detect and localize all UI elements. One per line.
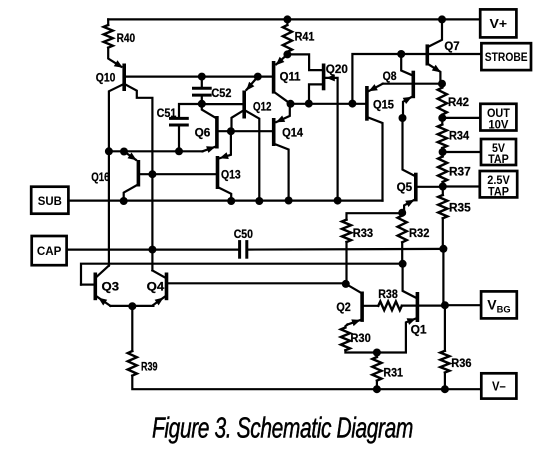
svg-text:C51: C51	[157, 106, 177, 120]
terminal box 5V TAP	[481, 139, 516, 165]
node rail-Q7	[438, 15, 446, 23]
node R32 bottom / Q1 collector / Q3 base line	[399, 260, 407, 268]
svg-text:Q8: Q8	[383, 69, 397, 83]
wire 5V lead	[443, 151, 481, 153]
wire emitter bus	[109, 150, 203, 152]
wire rail to R40	[107, 19, 109, 25]
node VBG junction	[441, 301, 449, 309]
wire R42 bottom	[441, 115, 443, 118]
resistor R41	[283, 25, 292, 52]
svg-text:TAP: TAP	[488, 184, 509, 198]
wire OUT lead	[442, 117, 479, 119]
svg-text:R42: R42	[448, 95, 469, 109]
svg-text:Q15: Q15	[373, 98, 394, 112]
resistor R36	[440, 351, 449, 373]
svg-text:Q16: Q16	[91, 170, 109, 184]
svg-text:Q4: Q4	[147, 280, 165, 294]
wire Q8/Q15/R42 base line	[383, 83, 442, 85]
svg-text:R33: R33	[353, 226, 374, 240]
wire SUB line	[68, 200, 382, 202]
emitter arrow Q12	[246, 82, 254, 91]
emitter arrow Q4	[155, 298, 164, 306]
transistor Q1 bar	[416, 292, 420, 322]
node SUB / Q20 emitter	[334, 197, 342, 205]
emitter arrow Q1	[407, 318, 416, 325]
emitter arrow Q10	[114, 60, 123, 68]
wire Q1 emitter	[377, 318, 418, 353]
wire Q15 collector to SUB	[367, 117, 383, 201]
emitter arrow Q6	[206, 146, 215, 153]
node Q5 emitter / R32 R33 top	[398, 209, 406, 217]
wire Q5 base	[418, 186, 443, 188]
wire Q16 collector to SUB	[124, 184, 139, 201]
wire Q11 collector	[274, 92, 291, 104]
transistor Q3 bar	[94, 273, 98, 301]
svg-text:Q3: Q3	[102, 280, 120, 294]
wire R39 top lead	[131, 306, 133, 351]
wire Q16 emitter	[124, 152, 136, 160]
resistor R30	[341, 328, 350, 351]
svg-text:10V: 10V	[488, 117, 509, 131]
svg-text:STROBE: STROBE	[485, 50, 528, 64]
wire R39 bottom to Vminus line	[132, 376, 482, 390]
terminal box VBG	[481, 291, 517, 318]
svg-text:Q1: Q1	[411, 323, 427, 337]
node R36 / Vminus line	[441, 385, 449, 393]
node Q8 emitter / Q5 collector / OUT	[399, 114, 407, 122]
svg-text:Q6: Q6	[195, 126, 211, 140]
wire C51 top lead	[179, 104, 202, 118]
node Q6 base / Q12 collector / Q13 emitter	[227, 127, 235, 135]
wire Q3 emitter	[97, 297, 110, 306]
node R41 / Q11 / Q20	[283, 50, 291, 58]
transistor Q2 bar	[360, 292, 364, 322]
svg-text:R34: R34	[449, 129, 469, 143]
node CAP line / Q4 collector	[148, 246, 156, 254]
resistor R37	[438, 157, 447, 183]
svg-text:CAP: CAP	[37, 244, 62, 258]
node Q16 base / Q10 right collector	[148, 170, 156, 178]
wire Q13 collector to SUB	[218, 187, 232, 201]
node bus / Q20 base	[305, 100, 313, 108]
terminal box V-	[481, 373, 516, 398]
svg-text:Q11: Q11	[280, 69, 301, 83]
svg-text:C52: C52	[211, 86, 231, 100]
transistor Q8 bar	[411, 71, 415, 99]
node R35 / CAP line	[439, 245, 447, 253]
wire R30 top lead	[345, 325, 347, 328]
wire Q12 right collector to SUB	[244, 110, 259, 201]
svg-text:R30: R30	[350, 331, 371, 345]
wire R33 bottom lead	[345, 242, 347, 284]
wire Q20 emitter	[325, 78, 337, 201]
wire R41 to node	[286, 52, 288, 55]
node OUT junction	[438, 114, 446, 122]
wire Q7 collector	[429, 19, 442, 46]
resistor R33	[342, 220, 351, 242]
wire Q6 collector	[202, 104, 216, 118]
terminal box OUT 10V	[480, 104, 516, 131]
svg-text:R39: R39	[141, 360, 158, 374]
wire Q12 emitter	[247, 77, 258, 90]
transistor Q14 bar	[272, 118, 276, 146]
node R30 / R31 / Q1 emitter	[373, 349, 381, 357]
resistor R34	[438, 125, 447, 149]
terminal box V+	[480, 9, 516, 37]
emitter arrow Q20	[326, 74, 335, 81]
wire Q20 base	[309, 84, 324, 103]
wire V+ rail	[108, 18, 480, 20]
node R31 / Vminus line	[373, 385, 381, 393]
node Q7 base / Q8 collector	[397, 50, 405, 58]
emitter arrow Q2	[351, 319, 360, 326]
wire C52 bottom lead	[201, 95, 203, 104]
wire Q11 emitter	[276, 54, 287, 64]
wire R36 top lead	[444, 305, 446, 351]
wire 2.5V lead	[443, 185, 481, 187]
svg-text:Q2: Q2	[336, 300, 351, 314]
svg-text:Q5: Q5	[397, 180, 413, 194]
wire Q3 collector	[97, 266, 109, 277]
wire R37 bottom	[442, 182, 444, 187]
wire R35 chain to VBG	[442, 249, 444, 305]
transistor Q13 bar	[216, 156, 220, 189]
transistor Q7 bar	[425, 44, 429, 65]
node Q7 emitter / R42 top	[438, 80, 446, 88]
wire R33 top lead	[347, 213, 403, 219]
wire R37 top	[442, 152, 444, 157]
terminal box CAP	[32, 236, 67, 265]
node bus / Q16 emitter	[120, 148, 128, 156]
terminal box STROBE	[481, 43, 531, 70]
resistor R32	[398, 216, 407, 243]
wire Q2 collector	[346, 284, 361, 293]
node 2.5V tap junction	[439, 183, 447, 191]
emitter arrow Q11	[276, 57, 285, 65]
wire C51 bottom lead	[178, 125, 180, 151]
wire R31 bottom lead	[376, 381, 378, 390]
wire Q6 base	[219, 130, 272, 132]
wire Q16/Q13 base line	[140, 173, 216, 175]
wire Q1 collector	[403, 264, 416, 298]
wire Q8 emitter	[403, 96, 413, 118]
emitter arrow Q7	[432, 65, 441, 73]
wire Q6 emitter	[203, 146, 217, 151]
wire base bus	[291, 103, 366, 105]
node bus / Q7-base column	[348, 100, 356, 108]
svg-text:Q20: Q20	[326, 62, 348, 76]
svg-text:Q12: Q12	[253, 100, 272, 114]
wire Q10 base rail	[126, 75, 272, 77]
transistor Q5 bar	[414, 173, 418, 202]
wire Q14 collector to SUB	[274, 144, 289, 201]
node base rail / Q12 emitter	[254, 73, 262, 81]
resistor R40	[104, 25, 113, 48]
wire R40 to Q10 emitter	[108, 48, 121, 67]
svg-text:R32: R32	[409, 226, 430, 240]
svg-text:R31: R31	[383, 366, 403, 380]
node bus / C51	[175, 147, 183, 155]
wire Q7 emitter	[427, 64, 440, 84]
svg-text:Q10: Q10	[96, 70, 116, 84]
wire CAP line right	[247, 248, 444, 251]
wire Q7 base / strobe line	[401, 53, 481, 55]
wire R35 bottom	[442, 218, 444, 249]
transistor Q6 bar	[215, 116, 219, 149]
capacitor C52	[194, 87, 211, 90]
wire rail to R41	[286, 19, 288, 25]
node R33 bottom / Q4 base / Q2 collector	[342, 280, 350, 288]
svg-text:Q13: Q13	[221, 168, 241, 182]
transistor Q15 bar	[365, 86, 369, 121]
transistor Q12 bar	[242, 91, 246, 119]
wire Q14 emitter	[276, 104, 289, 122]
wire R34 bottom	[441, 148, 443, 152]
node 5V tap junction	[439, 148, 447, 156]
capacitor C50	[238, 242, 241, 258]
terminal box SUB	[31, 187, 68, 214]
wire Q12 base	[202, 103, 243, 105]
terminal box 2.5V TAP	[480, 171, 517, 197]
wire CAP line left	[67, 249, 240, 251]
emitter arrow Q3	[98, 298, 107, 306]
wire R42 top	[441, 84, 443, 88]
svg-text:Q14: Q14	[282, 125, 303, 139]
wire R35 top	[442, 187, 444, 196]
resistor R38	[378, 301, 402, 310]
emitter arrow Q5	[405, 200, 414, 207]
svg-text:SUB: SUB	[38, 194, 62, 208]
wire Q4 emitter	[153, 297, 164, 305]
node bus / Q11 collector	[287, 100, 295, 108]
emitter arrow Q14	[276, 116, 285, 123]
svg-text:R38: R38	[378, 287, 398, 301]
wire Q2 emitter	[347, 319, 362, 324]
wire Q2 base	[364, 305, 378, 307]
svg-text:C50: C50	[234, 227, 253, 241]
transistor Q4 bar	[165, 273, 169, 301]
resistor R42	[438, 88, 447, 115]
svg-text:R35: R35	[449, 201, 471, 215]
emitter arrow Q16	[128, 153, 137, 161]
wire Q15 emitter	[369, 84, 383, 92]
wire C52 top lead	[201, 77, 203, 88]
wire Q12 left collector	[232, 110, 245, 131]
emitter arrow Q15	[369, 84, 378, 91]
wire R36 bottom lead	[444, 373, 446, 390]
svg-text:R36: R36	[451, 356, 471, 370]
resistor R31	[372, 357, 381, 381]
caption Figure 3. Schematic Diagram	[152, 412, 413, 444]
wire R34 top	[441, 118, 443, 125]
transistor Q20 bar	[322, 64, 326, 91]
emitter arrow Q8	[403, 97, 412, 104]
node emitter bus / R39	[128, 302, 136, 310]
wire Q3 base	[81, 284, 94, 286]
svg-text:R41: R41	[295, 29, 315, 43]
wire R30 bottom lead	[345, 350, 377, 352]
svg-text:V+: V+	[490, 16, 508, 31]
resistor R39	[128, 351, 137, 376]
resistor R35	[438, 195, 447, 218]
wire Q5 collector	[403, 118, 415, 176]
wire emitter bus Q3 Q4	[110, 305, 153, 307]
svg-text:Q7: Q7	[444, 39, 459, 53]
wire Q8 collector	[401, 54, 411, 75]
node SUB / Q14 collector	[285, 197, 293, 205]
wire Q5 emitter	[404, 199, 416, 213]
wire R32 bottom lead	[401, 242, 403, 263]
svg-text:TAP: TAP	[488, 152, 509, 166]
wire Q4 base	[168, 282, 345, 284]
svg-text:Figure 3. Schematic Diagram: Figure 3. Schematic Diagram	[152, 412, 413, 444]
node SUB / Q12 right collector	[255, 197, 263, 205]
wire Q3 base line	[81, 264, 403, 285]
wire R38 to Q1 base to VBG	[402, 305, 445, 307]
wire node to Q15 base column	[352, 54, 401, 104]
emitter arrow Q13	[220, 152, 229, 159]
node rail-R41	[283, 15, 291, 23]
transistor Q11 bar	[272, 61, 276, 94]
svg-text:R40: R40	[117, 31, 136, 45]
svg-text:R37: R37	[449, 165, 471, 179]
node bus / Q10 left collector	[105, 147, 113, 155]
wire R31 top lead	[376, 353, 378, 358]
wire Q20 collector	[287, 54, 322, 70]
wire Q4 collector	[152, 270, 164, 277]
node Q10 base / C52	[198, 73, 206, 81]
node C52 / C51 / Q12 base	[198, 100, 206, 108]
svg-text:V–: V–	[492, 379, 506, 394]
wire Q10 left collector	[109, 84, 124, 266]
wire VBG lead	[445, 304, 481, 306]
wire Q10 right collector	[124, 84, 152, 271]
transistor Q16 bar	[137, 160, 141, 187]
wire Q13 emitter	[220, 131, 231, 158]
node SUB / Q16 collector	[120, 197, 128, 205]
wire R32 top lead	[401, 213, 403, 216]
capacitor C51	[171, 117, 188, 120]
transistor Q10 bar	[122, 64, 126, 92]
node SUB / Q13 collector	[227, 197, 235, 205]
